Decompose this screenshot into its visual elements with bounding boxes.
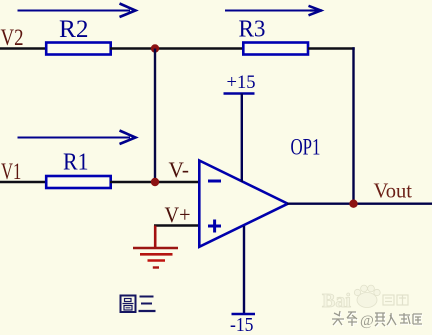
嵌 (375, 313, 385, 326)
svg-text:V+: V+ (165, 202, 191, 227)
疯 (413, 314, 422, 324)
wire node A to R3 (155, 47, 244, 49)
svg-text:@: @ (360, 313, 374, 329)
wire R2 to node A (110, 47, 155, 49)
svg-text:R1: R1 (63, 150, 89, 176)
svg-text:OP1: OP1 (291, 135, 321, 161)
node Vout junction dot (349, 200, 357, 208)
wire feedback vertical (352, 47, 354, 204)
入 (387, 313, 396, 325)
svg-text:Bai: Bai (322, 290, 351, 312)
resistor R3 (243, 43, 308, 55)
头 (332, 311, 344, 325)
+15 supply (224, 72, 256, 182)
resistor R2 (46, 43, 111, 55)
op-amp U1 (199, 161, 287, 247)
arrow top-right (225, 6, 322, 16)
wire node A down to node B (154, 49, 156, 183)
svg-text:Vout: Vout (374, 179, 413, 203)
ground (133, 226, 178, 268)
resistor R1 (46, 176, 111, 188)
svg-text:V2: V2 (1, 25, 24, 50)
arrow middle-left (18, 131, 136, 145)
式 (399, 313, 410, 324)
node B junction dot (151, 178, 159, 186)
svg-text:R3: R3 (239, 17, 266, 43)
wire V2 to R2 (0, 47, 46, 49)
svg-text:-15: -15 (230, 315, 254, 335)
node A junction dot (151, 44, 159, 52)
arrow top-left (input current direction) (18, 4, 136, 18)
wire R1 to op-amp inverting input (110, 181, 199, 183)
wire V1 to R1 (0, 181, 46, 183)
条 (347, 312, 357, 326)
svg-text:R2: R2 (59, 16, 89, 43)
caption 圖三 (figure three) drawn strokes (121, 296, 156, 313)
watermark Baidu experience logo (faint) (322, 285, 408, 312)
wire op-amp output to Vout (287, 202, 432, 204)
wire ground to op-amp non-inverting input (154, 224, 199, 226)
svg-text:+15: +15 (227, 72, 256, 93)
wire R3 to corner (308, 47, 355, 49)
svg-text:V-: V- (169, 157, 190, 182)
watermark toutiao handle emboss (white) (333, 312, 423, 327)
watermark toutiao handle (gray) (332, 311, 357, 326)
-15 supply (230, 226, 255, 335)
svg-text:V1: V1 (1, 159, 21, 184)
